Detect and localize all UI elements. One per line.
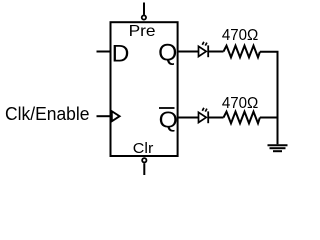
svg-text:Q: Q	[158, 40, 177, 67]
svg-text:Clr: Clr	[133, 141, 154, 157]
svg-text:D: D	[112, 41, 130, 68]
wire Clk input	[97, 115, 112, 117]
ground bar 1	[268, 144, 288, 146]
Qbar overbar	[159, 107, 175, 109]
svg-text:Q: Q	[159, 107, 178, 133]
wire D2 to R2	[208, 117, 223, 119]
svg-text:Clk/Enable: Clk/Enable	[5, 103, 90, 124]
wire Qbar output stub	[178, 117, 199, 119]
LED D1 emission tick 1	[202, 42, 204, 45]
wire Clr input stub	[143, 163, 145, 175]
flip-flop U1 body	[111, 22, 178, 156]
LED D1 emission tick 2	[205, 43, 207, 46]
wire Pre input stub	[143, 3, 145, 15]
wire D input stub	[97, 51, 111, 53]
LED D2 triangle	[199, 112, 207, 122]
clock arrowhead	[112, 111, 120, 121]
wire Q output stub	[178, 51, 199, 53]
ground bar 2	[270, 147, 286, 149]
wire R2 to rail	[260, 117, 278, 119]
svg-text:470Ω: 470Ω	[222, 27, 258, 44]
LED D1 triangle	[199, 46, 207, 56]
LED D1 cathode bar	[207, 45, 209, 57]
wire right rail	[277, 52, 279, 145]
Clr active-low bubble	[142, 158, 146, 162]
wire R1 to rail	[260, 51, 279, 53]
resistor R1	[224, 46, 260, 58]
svg-text:470Ω: 470Ω	[222, 95, 258, 112]
resistor R2	[224, 112, 260, 124]
svg-text:Pre: Pre	[129, 23, 156, 40]
Pre active-low bubble	[142, 15, 146, 19]
LED D2 emission tick 1	[202, 108, 204, 111]
LED D2 cathode bar	[207, 111, 209, 123]
LED D2 emission tick 2	[205, 109, 207, 112]
wire D1 to R1	[208, 51, 223, 53]
ground bar 3	[273, 150, 282, 152]
